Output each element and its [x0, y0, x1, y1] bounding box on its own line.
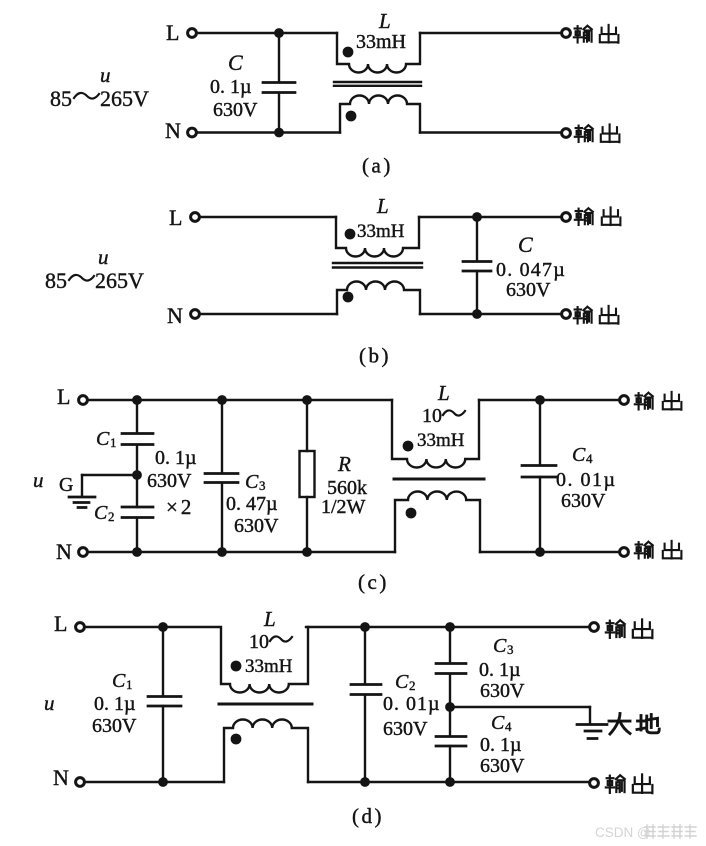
svg-text:0. 01µ: 0. 01µ	[383, 693, 441, 715]
wire top (d)	[85, 626, 219, 628]
svg-text:1/2W: 1/2W	[321, 496, 366, 518]
terminal output bottom (d)	[590, 779, 599, 788]
svg-text:85: 85	[50, 86, 72, 111]
svg-text:630V: 630V	[480, 755, 525, 777]
capacitor C2 (d)	[364, 627, 366, 684]
wire L top (a)	[197, 32, 337, 34]
terminal L (a)	[188, 29, 197, 38]
wire bottom (d)	[85, 781, 224, 783]
svg-text:u: u	[98, 245, 109, 269]
phase dot top winding (b)	[345, 229, 356, 240]
svg-text:630V: 630V	[383, 718, 428, 740]
label 大地 (d)	[609, 714, 630, 735]
svg-text:G: G	[59, 474, 73, 496]
wire to earth (d)	[450, 706, 590, 708]
svg-text:0. 47µ: 0. 47µ	[226, 493, 278, 515]
svg-text:10: 10	[422, 405, 442, 427]
svg-text:2: 2	[409, 678, 416, 693]
svg-text:C: C	[228, 50, 243, 75]
svg-text:630V: 630V	[506, 279, 551, 301]
svg-text:630V: 630V	[147, 470, 192, 492]
wire bottom right (d)	[308, 781, 588, 783]
phase dot bottom winding (b)	[343, 292, 354, 303]
label 输出 bottom (b)	[574, 307, 592, 324]
svg-text:33mH: 33mH	[357, 221, 405, 242]
svg-text:C: C	[112, 670, 126, 692]
terminal L (d)	[76, 623, 85, 632]
inductor L top winding (d)	[221, 627, 308, 692]
wire top (c)	[88, 399, 392, 401]
svg-text:33mH: 33mH	[245, 656, 293, 677]
svg-text:N: N	[53, 765, 69, 790]
node top C3 (c)	[217, 395, 227, 405]
node top R (c)	[302, 395, 312, 405]
phase dot bottom (c)	[406, 508, 417, 519]
svg-text:CSDN @: CSDN @	[595, 825, 651, 840]
svg-text:1: 1	[110, 435, 117, 450]
svg-text:L: L	[437, 381, 450, 405]
svg-text:L: L	[169, 205, 182, 230]
svg-text:C: C	[572, 444, 586, 466]
node bottom C2 (d)	[360, 777, 370, 787]
terminal L (b)	[191, 213, 200, 222]
svg-text:u: u	[33, 468, 44, 492]
inductor L top winding (c)	[392, 400, 479, 468]
wire bottom (c)	[88, 551, 395, 553]
svg-text:4: 4	[505, 719, 512, 734]
wire to bottom output (a)	[420, 131, 561, 133]
svg-text:4: 4	[586, 451, 593, 466]
svg-text:630V: 630V	[213, 99, 258, 121]
svg-text:85: 85	[45, 268, 67, 293]
core line (d)	[219, 703, 312, 706]
wire to ground (c)	[82, 474, 137, 476]
svg-text:0. 1µ: 0. 1µ	[94, 693, 136, 715]
wire top right (d)	[306, 626, 588, 628]
terminal output top (a)	[562, 29, 571, 38]
terminal N (c)	[79, 548, 88, 557]
terminal L (c)	[79, 396, 88, 405]
svg-text:(d): (d)	[352, 804, 384, 828]
wire to bottom output (b)	[420, 313, 561, 315]
svg-text:10: 10	[249, 631, 269, 653]
svg-text:0. 047µ: 0. 047µ	[496, 259, 566, 281]
ground symbol (c)	[81, 475, 83, 496]
node bottom C3 (c)	[217, 547, 227, 557]
wire to top output (b)	[419, 216, 561, 218]
svg-text:630V: 630V	[234, 515, 279, 537]
wire top right (c)	[479, 399, 618, 401]
node bottom C4 (c)	[535, 547, 545, 557]
core lines (b)	[333, 263, 422, 268]
svg-text:R: R	[337, 452, 351, 476]
capacitor C4 (c)	[539, 400, 541, 465]
capacitor C3 (c)	[221, 400, 223, 473]
svg-text:265V: 265V	[95, 268, 144, 293]
capacitor C (a)	[278, 33, 280, 82]
node bottom R (c)	[302, 547, 312, 557]
inductor L top winding (b)	[336, 217, 419, 257]
svg-text:2: 2	[108, 509, 115, 524]
node top C3 (d)	[445, 622, 455, 632]
node top C1 (c)	[132, 395, 142, 405]
svg-text:N: N	[56, 539, 72, 564]
phase dot top winding (a)	[343, 47, 354, 58]
node top of C (b)	[472, 212, 482, 222]
inductor L bottom winding (b)	[337, 282, 420, 314]
node bottom of C (b)	[472, 309, 482, 319]
svg-text:33mH: 33mH	[417, 430, 465, 451]
svg-text:33mH: 33mH	[356, 31, 406, 53]
capacitor C (b)	[476, 217, 478, 261]
svg-text:N: N	[167, 303, 183, 328]
label 输出 bottom (a)	[575, 125, 593, 142]
terminal output top (c)	[620, 396, 629, 405]
phase dot bottom (d)	[231, 734, 242, 745]
node mid G (c)	[132, 470, 142, 480]
svg-text:1: 1	[126, 677, 133, 692]
terminal N (b)	[191, 310, 200, 319]
terminal output top (d)	[590, 623, 599, 632]
core line (c)	[394, 478, 484, 481]
label 输出 top (c)	[635, 393, 653, 410]
node top of C (a)	[274, 28, 284, 38]
inductor L1 top winding (a)	[337, 33, 420, 73]
svg-text:(c): (c)	[358, 570, 389, 594]
svg-text:L: L	[166, 20, 179, 45]
svg-text:C: C	[395, 671, 409, 693]
terminal N (d)	[76, 778, 85, 787]
svg-text:(a): (a)	[362, 154, 393, 178]
svg-text:L: L	[376, 194, 389, 218]
svg-text:3: 3	[259, 478, 266, 493]
node top C1 (d)	[158, 622, 168, 632]
label 输出 top (d)	[606, 620, 625, 638]
node bottom C1C2 (c)	[132, 547, 142, 557]
capacitor C3 (d)	[449, 627, 451, 663]
capacitor C2 (c)	[122, 507, 153, 518]
svg-text:630V: 630V	[480, 680, 525, 702]
svg-text:0. 01µ: 0. 01µ	[556, 469, 617, 491]
phase dot top (d)	[231, 661, 242, 672]
node bottom of C (a)	[274, 128, 284, 138]
svg-text:0. 1µ: 0. 1µ	[210, 76, 252, 98]
phase dot bottom winding (a)	[346, 111, 357, 122]
earth symbol (d)	[589, 707, 591, 724]
terminal output top (b)	[562, 213, 571, 222]
terminal output bottom (a)	[562, 129, 571, 138]
svg-text:630V: 630V	[92, 715, 137, 737]
wire N bottom (a)	[197, 131, 340, 133]
svg-text:630V: 630V	[561, 490, 606, 512]
svg-text:L: L	[54, 611, 67, 636]
svg-text:L: L	[378, 9, 391, 33]
label 输出 bottom (c)	[635, 542, 653, 559]
svg-text:×2: ×2	[166, 495, 194, 519]
watermark CSDN	[595, 825, 696, 840]
node mid earth (d)	[445, 702, 455, 712]
label 输出 bottom (d)	[606, 775, 625, 793]
capacitor C1 (c)	[136, 400, 138, 433]
wire N bottom (b)	[200, 313, 337, 315]
node top C2 (d)	[360, 622, 370, 632]
node top C4 (c)	[535, 395, 545, 405]
wire bottom right (c)	[480, 551, 618, 553]
phase dot top (c)	[403, 441, 414, 452]
capacitor C4 (d)	[436, 737, 466, 747]
svg-text:u: u	[44, 691, 55, 715]
inductor L1 bottom winding (a)	[340, 96, 420, 133]
inductor L bottom winding (c)	[395, 492, 480, 553]
svg-text:L: L	[263, 607, 276, 631]
terminal N (a)	[188, 128, 197, 137]
svg-text:C: C	[96, 428, 110, 450]
svg-text:3: 3	[507, 642, 514, 657]
node bottom C4 (d)	[445, 777, 455, 787]
svg-text:0. 1µ: 0. 1µ	[155, 447, 197, 469]
svg-text:C: C	[491, 712, 505, 734]
node bottom C1 (d)	[158, 777, 168, 787]
resistor R (c)	[306, 400, 308, 451]
core lines (a)	[334, 82, 421, 86]
inductor L bottom winding (d)	[224, 719, 308, 782]
wire to top output (a)	[420, 32, 561, 34]
label 输出 top (b)	[575, 208, 593, 225]
svg-text:C: C	[245, 471, 259, 493]
svg-text:265V: 265V	[100, 86, 149, 111]
wire L top (b)	[200, 216, 336, 218]
svg-text:(b): (b)	[359, 344, 391, 368]
svg-text:0. 1µ: 0. 1µ	[480, 734, 522, 756]
terminal output bottom (c)	[620, 548, 629, 557]
svg-text:L: L	[57, 384, 70, 409]
svg-text:0. 1µ: 0. 1µ	[479, 659, 521, 681]
svg-text:C: C	[94, 502, 108, 524]
terminal output bottom (b)	[562, 310, 571, 319]
capacitor C1 (d)	[162, 627, 164, 696]
svg-text:N: N	[165, 118, 181, 143]
svg-text:u: u	[100, 63, 111, 87]
svg-text:C: C	[518, 232, 533, 257]
label 输出 top (a)	[574, 26, 592, 43]
svg-text:C: C	[493, 635, 507, 657]
